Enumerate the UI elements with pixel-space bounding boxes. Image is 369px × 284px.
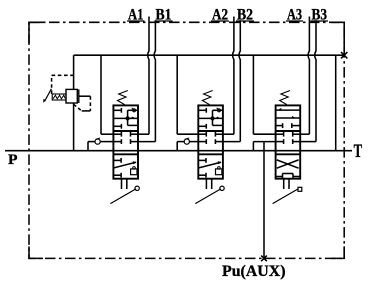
work port riser B3 [315,20,316,141]
work port riser A2 [233,17,234,135]
valve V2 centre position internals [198,133,206,135]
valve V3 centre position internals [276,133,284,135]
svg-text:T: T [354,141,363,162]
valve V2 top position internals [198,109,206,111]
work port riser B1 [154,20,155,141]
valve V1 top position internals [113,109,121,111]
valve V1 operating lever [110,189,135,204]
feed branch to valve V1 [87,142,89,151]
relief valve spring [52,94,66,100]
feed branch to valve V3 [252,142,254,151]
relief valve vent loop [79,95,91,97]
valve V1 bottom position internals [113,159,121,161]
P-T pressure/tank line [5,150,352,152]
valve V2 return spring [202,91,212,105]
valve V3 operating lever [273,189,299,204]
work port riser B2 [239,20,240,141]
Pu(AUX) port line [263,142,265,259]
plugged aux port X [261,256,267,262]
valve V2 bottom position internals [198,159,206,161]
valve V1 spool stem [121,179,123,189]
bypass drop to valve V3 [252,55,254,134]
directional valve V1 body [113,105,138,178]
work port riser A3 [308,17,309,135]
gallery-to-tank drop [335,55,337,151]
plugged carry-over port X [341,52,347,58]
directional valve V2 body [198,105,223,178]
bypass drop to valve V2 [176,55,178,134]
valve V1 return spring [118,91,128,105]
svg-text:P: P [8,152,18,168]
work port riser A1 [148,17,149,135]
enclosure border (dash-dot) [29,22,344,258]
bypass drop to valve V1 [100,55,102,134]
valve V1 centre position internals [113,133,121,135]
load check valve V1 [95,139,100,144]
valve V3 top position internals [276,109,301,111]
valve V3 spool stem [283,179,285,189]
valve V2 spool stem [205,179,207,189]
relief valve drop line [73,55,75,89]
valve V3 float position internals [277,160,299,168]
directional valve V3 body [276,105,301,178]
border corner solids [29,22,43,43]
relief valve pilot line (dashed) [51,75,53,94]
feed branch to valve V2 [176,142,178,151]
bypass gallery line [74,54,345,56]
valve V3 return spring [280,91,290,105]
relief valve adjust arrow [45,89,52,101]
relief valve RV body [66,89,77,103]
valve V2 operating lever [195,189,221,204]
svg-text:Pu(AUX): Pu(AUX) [222,263,286,280]
load check valve V2 [184,139,189,144]
